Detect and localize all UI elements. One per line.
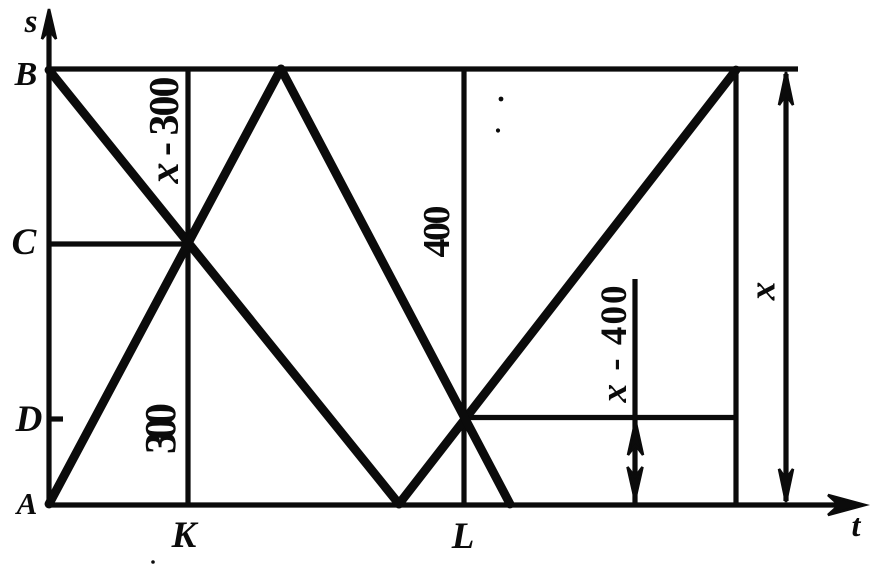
t-axis arrowhead [828, 495, 865, 515]
speck dot [499, 97, 504, 102]
up arrowhead of x dimension [779, 72, 793, 105]
svg-text:t: t [852, 507, 862, 543]
svg-text:x: x [743, 282, 784, 302]
dimension arrow line x [783, 74, 788, 501]
svg-text:B: B [14, 56, 38, 93]
thick graph line: up to top right corner [399, 70, 736, 504]
speck dot [496, 128, 500, 132]
tick at D on s-axis [47, 416, 63, 421]
svg-text:L: L [451, 516, 475, 557]
thick graph line: B down to t-axis [49, 70, 399, 504]
right boundary vertical line [733, 69, 738, 505]
s-axis arrowhead [42, 9, 56, 39]
leader line for x-400 label [632, 279, 637, 503]
svg-text:400: 400 [416, 206, 458, 258]
horizontal line at D level [461, 415, 736, 420]
thick graph line: peak down to t-axis [281, 69, 510, 504]
down arrowhead of x dimension [779, 469, 793, 502]
svg-text:x - 400: x - 400 [594, 286, 635, 404]
svg-text:300: 300 [136, 403, 185, 454]
svg-text:D: D [15, 399, 43, 440]
up arrowhead of x-400 dimension [628, 421, 643, 455]
svg-text:x - 300: x - 300 [142, 77, 188, 185]
vertical line at L [461, 69, 466, 505]
svg-text:C: C [12, 222, 38, 263]
speck dot [151, 560, 155, 564]
vertical line at K [185, 69, 190, 505]
svg-text:s: s [24, 4, 38, 40]
s-axis [46, 22, 51, 505]
thick graph line: A up to peak [49, 69, 281, 504]
top horizontal line at B level [47, 66, 798, 71]
t-axis [47, 502, 845, 507]
svg-text:K: K [171, 515, 199, 556]
down arrowhead of x-400 dimension [628, 467, 643, 500]
horizontal line at C level [49, 241, 187, 246]
svg-text:A: A [15, 486, 38, 521]
